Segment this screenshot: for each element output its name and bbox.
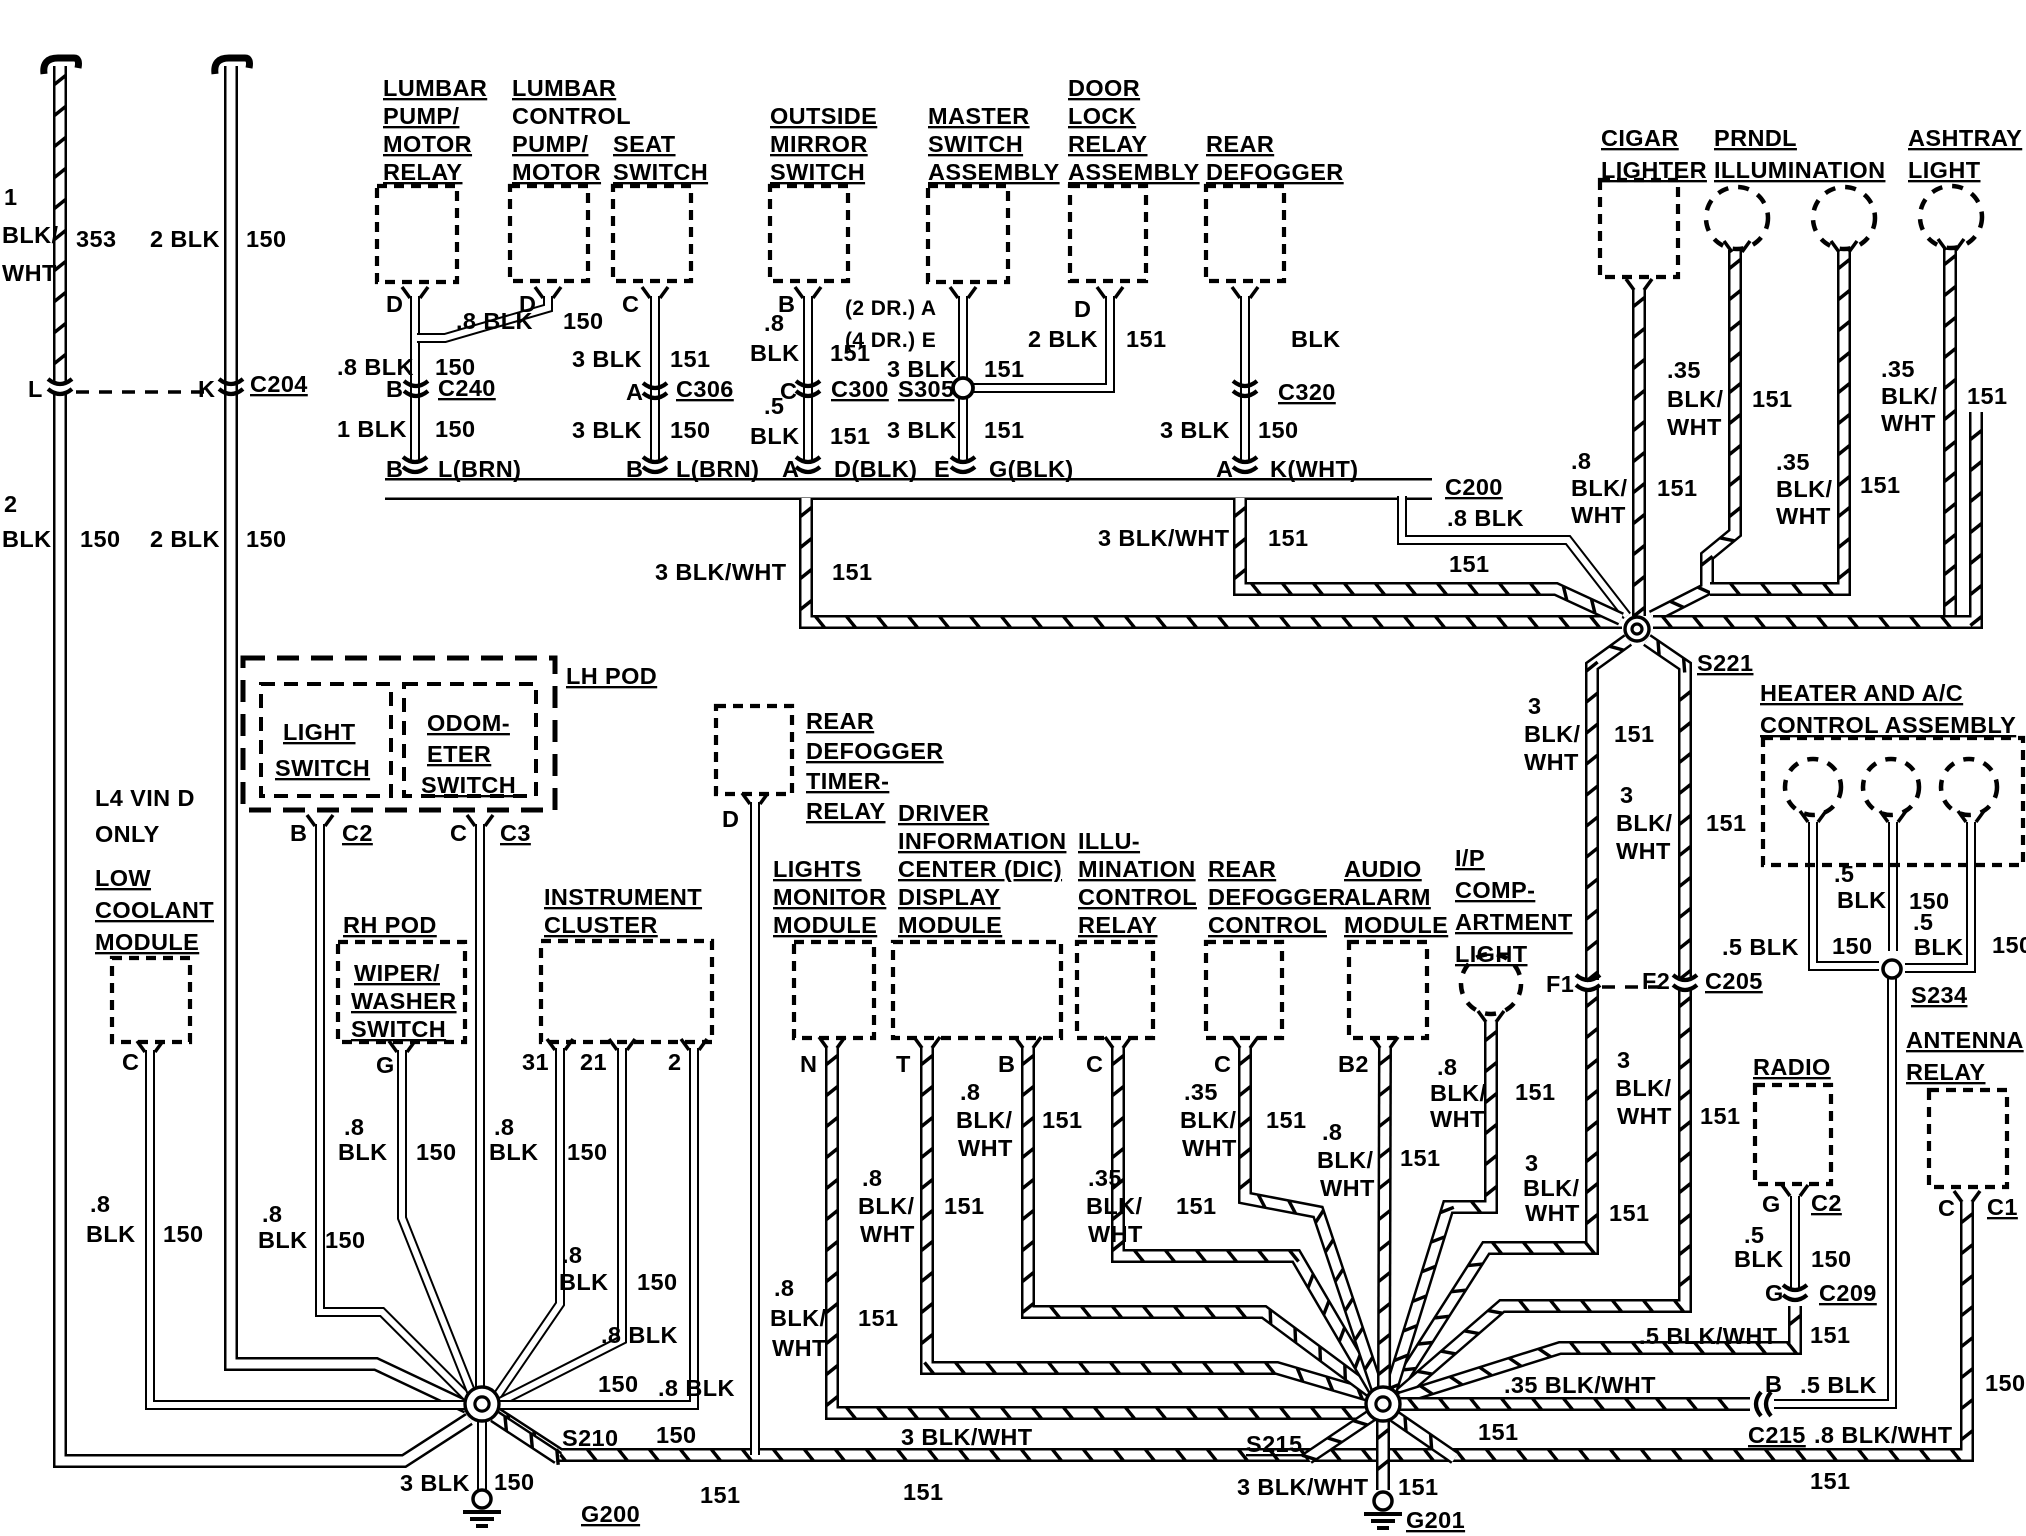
svg-text:MASTER: MASTER (928, 103, 1030, 129)
svg-text:L(BRN): L(BRN) (438, 456, 521, 482)
svg-text:3: 3 (1620, 782, 1633, 808)
pin flare rear defogger (1232, 287, 1258, 298)
svg-text:B: B (386, 456, 403, 482)
svg-text:ETER: ETER (427, 741, 491, 767)
pin flare antenna relay C (1954, 1191, 1980, 1202)
wire S210 down 3 BLK 150 to G200 (477, 1421, 487, 1490)
svg-text:WHT: WHT (1525, 1200, 1580, 1226)
svg-text:MODULE: MODULE (773, 912, 877, 938)
svg-text:.8: .8 (774, 1275, 794, 1301)
wire S221 to F1 3 BLK/WHT 151 vertical (1586, 640, 1628, 981)
wire radio pin G .5 BLK 150 to C209 (1790, 1196, 1800, 1288)
svg-text:LH POD: LH POD (566, 663, 657, 689)
svg-text:B: B (998, 1051, 1015, 1077)
svg-text:.8 BLK: .8 BLK (456, 308, 533, 334)
svg-text:BLK: BLK (258, 1227, 308, 1253)
svg-text:BLK/: BLK/ (1571, 475, 1627, 501)
svg-text:RH POD: RH POD (343, 912, 437, 938)
svg-text:L: L (28, 376, 43, 402)
svg-text:ILLUMINATION: ILLUMINATION (1714, 157, 1885, 183)
svg-text:OUTSIDE: OUTSIDE (770, 103, 877, 129)
svg-text:BLK/: BLK/ (1180, 1107, 1236, 1133)
svg-text:G201: G201 (1406, 1507, 1465, 1533)
svg-text:BLK: BLK (86, 1221, 136, 1247)
svg-text:G: G (1765, 1280, 1784, 1306)
box illumination control relay (1077, 942, 1153, 1038)
wire S215 down 3 BLK/WHT 151 to G201 (1377, 1420, 1388, 1490)
svg-text:BLK: BLK (1734, 1246, 1784, 1272)
wire S215 to C215 .35 BLK/WHT (1399, 1398, 1750, 1409)
svg-text:LIGHTER: LIGHTER (1601, 157, 1707, 183)
wire instrument cluster pin 31 .8 BLK 150 to S210 (497, 1048, 560, 1396)
pin flare cluster 2 (681, 1039, 707, 1050)
svg-text:INFORMATION: INFORMATION (898, 828, 1066, 854)
wire ashtray light .35 BLK/WHT down to S221 right band (1944, 246, 1955, 616)
svg-text:F2: F2 (1642, 968, 1670, 994)
wire LH POD pin C C3 .8 BLK 150 to S210 (475, 824, 485, 1388)
svg-text:MOTOR: MOTOR (512, 159, 601, 185)
svg-text:C200: C200 (1445, 474, 1503, 500)
box door lock relay assembly (1070, 186, 1146, 281)
pin flare audio alarm B2 (1372, 1037, 1398, 1048)
connector C204 pin L (48, 379, 72, 394)
svg-text:DRIVER: DRIVER (898, 800, 989, 826)
svg-text:151: 151 (1609, 1200, 1649, 1226)
svg-text:151: 151 (1266, 1107, 1306, 1133)
svg-text:LIGHT: LIGHT (1455, 941, 1528, 967)
svg-text:I/P: I/P (1455, 845, 1485, 871)
svg-text:SEAT: SEAT (613, 131, 676, 157)
wire lumbar control pump/motor pin D jog .8 BLK 150 (417, 296, 548, 338)
svg-text:B2: B2 (1338, 1051, 1369, 1077)
svg-text:BLK/: BLK/ (1667, 386, 1723, 412)
wire S215 lower-left diagonal to 151 bus (1302, 1415, 1372, 1460)
svg-text:DISPLAY: DISPLAY (898, 884, 1001, 910)
connector C209 pin G (1783, 1285, 1807, 1300)
svg-text:C2: C2 (1811, 1190, 1842, 1216)
wire cigar lighter .8 BLK/WHT 151 down to S221 (1633, 288, 1644, 617)
svg-text:DEFOGGER: DEFOGGER (806, 738, 944, 764)
svg-text:.8: .8 (262, 1201, 282, 1227)
svg-text:BLK: BLK (559, 1269, 609, 1295)
svg-text:G(BLK): G(BLK) (989, 456, 1074, 482)
svg-text:C: C (1214, 1051, 1231, 1077)
off-page hook left wire 2 (215, 58, 250, 74)
svg-text:CIGAR: CIGAR (1601, 125, 1679, 151)
wire heater A/C bulb middle .5 BLK 150 to S234 (1888, 822, 1898, 951)
pin flare RH POD G (389, 1041, 415, 1052)
svg-text:.35: .35 (1776, 449, 1810, 475)
svg-text:BLK: BLK (1837, 887, 1887, 913)
svg-text:2 BLK: 2 BLK (150, 226, 220, 252)
svg-text:PUMP/: PUMP/ (512, 131, 588, 157)
wire dashed link C204 L-K (76, 390, 214, 394)
svg-text:MIRROR: MIRROR (770, 131, 868, 157)
wire PRNDL illumination bulb2 .35 BLK/WHT 151 (1710, 250, 1850, 595)
box instrument cluster (541, 941, 712, 1042)
connector C306 pin A (643, 383, 667, 398)
svg-text:3 BLK: 3 BLK (887, 417, 957, 443)
svg-text:COOLANT: COOLANT (95, 897, 214, 923)
svg-text:BLK/: BLK/ (1430, 1080, 1486, 1106)
svg-text:151: 151 (1176, 1193, 1216, 1219)
svg-text:WHT: WHT (1088, 1221, 1143, 1247)
box outside mirror switch (770, 186, 848, 281)
svg-text:WHT: WHT (1667, 414, 1722, 440)
svg-text:150: 150 (1258, 417, 1298, 443)
pin flare I/P light (1478, 1011, 1504, 1022)
svg-text:TIMER-: TIMER- (806, 768, 889, 794)
box rear defogger timer-relay (716, 706, 792, 794)
svg-text:2 BLK: 2 BLK (1028, 326, 1098, 352)
svg-text:BLK/: BLK/ (2, 222, 58, 248)
svg-text:(4 DR.) E: (4 DR.) E (845, 329, 936, 352)
svg-text:.5: .5 (1744, 1222, 1764, 1248)
svg-text:LIGHT: LIGHT (1908, 157, 1981, 183)
svg-text:C306: C306 (676, 376, 734, 402)
box DIC display module (893, 942, 1061, 1038)
svg-text:F1: F1 (1546, 971, 1574, 997)
svg-text:CONTROL: CONTROL (1208, 912, 1327, 938)
svg-text:151: 151 (1657, 475, 1697, 501)
box heater and A/C control assembly (1763, 738, 2023, 865)
svg-text:150: 150 (598, 1371, 638, 1397)
svg-text:B: B (626, 456, 643, 482)
svg-text:WHT: WHT (1881, 410, 1936, 436)
svg-text:BLK/: BLK/ (1615, 1075, 1671, 1101)
svg-text:.5 BLK: .5 BLK (1800, 1372, 1877, 1398)
svg-text:MONITOR: MONITOR (773, 884, 886, 910)
svg-text:ALARM: ALARM (1344, 884, 1431, 910)
svg-text:ANTENNA: ANTENNA (1906, 1027, 2024, 1053)
svg-text:LUMBAR: LUMBAR (383, 75, 487, 101)
svg-text:150: 150 (670, 417, 710, 443)
svg-text:SWITCH: SWITCH (613, 159, 708, 185)
svg-text:CONTROL: CONTROL (1078, 884, 1197, 910)
svg-text:.8: .8 (1322, 1119, 1342, 1145)
svg-text:3: 3 (1525, 1150, 1538, 1176)
svg-text:151: 151 (1967, 383, 2007, 409)
box lumbar control pump/motor (510, 186, 588, 281)
svg-text:WHT: WHT (1571, 502, 1626, 528)
wire low coolant module pin C .8 BLK 150 to S210 (150, 1050, 466, 1405)
svg-text:MODULE: MODULE (95, 929, 199, 955)
svg-text:C320: C320 (1278, 379, 1336, 405)
svg-text:3 BLK/WHT: 3 BLK/WHT (901, 1424, 1033, 1450)
svg-text:.8: .8 (344, 1114, 364, 1140)
svg-text:150: 150 (1985, 1370, 2025, 1396)
svg-text:L(BRN): L(BRN) (676, 456, 759, 482)
svg-text:150: 150 (494, 1469, 534, 1495)
svg-text:BLK: BLK (750, 340, 800, 366)
svg-text:WHT: WHT (1524, 749, 1579, 775)
svg-text:D: D (1074, 296, 1091, 322)
svg-text:150: 150 (1992, 932, 2026, 958)
svg-text:ASSEMBLY: ASSEMBLY (928, 159, 1060, 185)
box rear defogger (1206, 186, 1284, 281)
svg-text:150: 150 (325, 1227, 365, 1253)
lamp PRNDL illumination bulb 2 (1813, 187, 1875, 249)
svg-text:.5: .5 (764, 393, 784, 419)
svg-text:150: 150 (1811, 1246, 1851, 1272)
svg-text:.8: .8 (494, 1114, 514, 1140)
box antenna relay (1929, 1090, 2007, 1187)
svg-text:WHT: WHT (1320, 1175, 1375, 1201)
svg-text:BLK: BLK (750, 423, 800, 449)
connector C205 pin F1 (1576, 975, 1600, 990)
svg-text:REAR: REAR (1206, 131, 1274, 157)
svg-text:.8: .8 (862, 1165, 882, 1191)
svg-text:LOW: LOW (95, 865, 151, 891)
svg-text:C3: C3 (500, 820, 531, 846)
connector bus pin E G(BLK) (951, 457, 975, 472)
svg-text:MOTOR: MOTOR (383, 131, 472, 157)
pin flare LH POD B (307, 815, 333, 826)
svg-text:151: 151 (984, 356, 1024, 382)
svg-text:WHT: WHT (772, 1335, 827, 1361)
svg-text:.5: .5 (1834, 861, 1854, 887)
box light switch (261, 684, 391, 796)
wire 3 BLK/WHT 151 bus drop to S221 left band (800, 498, 1622, 628)
svg-text:B: B (386, 376, 403, 402)
svg-text:3 BLK: 3 BLK (400, 1470, 470, 1496)
svg-text:151: 151 (858, 1305, 898, 1331)
box master switch assembly (928, 186, 1008, 282)
connector bus pin A K(WHT) (1233, 457, 1257, 472)
wire I/P compartment light .8 BLK/WHT 151 to S215 (1385, 1022, 1497, 1390)
svg-text:150: 150 (435, 416, 475, 442)
splice S215 (1366, 1387, 1400, 1421)
svg-text:WHT: WHT (1617, 1103, 1672, 1129)
pin flare cigar lighter (1626, 279, 1652, 290)
wire S305 down 3 BLK 151 to G(BLK) (958, 396, 968, 462)
lamp I/P compartment light (1461, 954, 1521, 1014)
svg-text:INSTRUMENT: INSTRUMENT (544, 884, 702, 910)
svg-text:BLK: BLK (489, 1139, 539, 1165)
connector C205 pin F2 (1673, 975, 1697, 990)
svg-text:L4 VIN D: L4 VIN D (95, 785, 195, 811)
svg-text:C: C (1938, 1195, 1955, 1221)
svg-text:RELAY: RELAY (1078, 912, 1158, 938)
svg-text:150: 150 (163, 1221, 203, 1247)
svg-text:BLK/: BLK/ (1616, 810, 1672, 836)
svg-text:K: K (198, 376, 215, 402)
svg-text:.8: .8 (1571, 448, 1591, 474)
svg-text:150: 150 (563, 308, 603, 334)
svg-text:31: 31 (522, 1049, 549, 1075)
svg-text:21: 21 (580, 1049, 607, 1075)
wire S221 right band 151 with off-page stub (1653, 412, 1982, 628)
svg-text:A: A (782, 456, 799, 482)
wire lights monitor module pin N .8 BLK/WHT 151 to S215 (826, 1046, 1367, 1419)
svg-text:ASSEMBLY: ASSEMBLY (1068, 159, 1200, 185)
svg-text:BLK/: BLK/ (1524, 721, 1580, 747)
svg-text:2: 2 (4, 491, 17, 517)
pin flare timer relay D (742, 793, 768, 804)
svg-text:C: C (1086, 1051, 1103, 1077)
box low coolant module (112, 958, 190, 1042)
svg-text:151: 151 (1515, 1079, 1555, 1105)
svg-text:BLK: BLK (1291, 326, 1341, 352)
svg-text:151: 151 (944, 1193, 984, 1219)
pin flare PRNDL bulb2 (1831, 241, 1857, 252)
box cigar lighter (1600, 180, 1678, 277)
svg-text:WHT: WHT (2, 260, 57, 286)
wire heater A/C bulb right .5 BLK 150 to S234 (1905, 822, 1971, 968)
svg-text:150: 150 (246, 226, 286, 252)
svg-text:BLK/: BLK/ (1523, 1175, 1579, 1201)
svg-text:C240: C240 (438, 375, 496, 401)
svg-text:WIPER/: WIPER/ (354, 960, 440, 986)
wire F1 to S215 3 BLK/WHT 151 (1394, 988, 1598, 1392)
pin flare mirror switch B (795, 287, 821, 298)
svg-text:A: A (626, 379, 643, 405)
svg-text:C: C (622, 291, 639, 317)
wire rear defogger BLK to C320 to K(WHT) 3 BLK 150 (1240, 296, 1250, 462)
svg-text:MODULE: MODULE (898, 912, 1002, 938)
svg-text:.8 BLK: .8 BLK (658, 1375, 735, 1401)
wire DIC pin T .8 BLK/WHT 151 to S215 (921, 1046, 1372, 1399)
wire DIC pin B .8 BLK/WHT 151 to S215 (1022, 1046, 1373, 1398)
svg-text:BLK: BLK (1914, 934, 1964, 960)
svg-text:LIGHTS: LIGHTS (773, 856, 862, 882)
svg-text:D: D (722, 806, 739, 832)
wire S234 down .5 BLK 150 to C215 pin B (1774, 978, 1892, 1404)
svg-text:C209: C209 (1819, 1280, 1877, 1306)
pin flare illum relay C (1105, 1037, 1131, 1048)
off-page hook left wire 1 (44, 58, 79, 74)
box audio alarm module (1349, 942, 1427, 1038)
svg-text:.5 BLK/WHT: .5 BLK/WHT (1639, 1323, 1778, 1349)
pin flare cluster 31 (547, 1039, 573, 1050)
svg-text:150: 150 (80, 526, 120, 552)
svg-text:150: 150 (416, 1139, 456, 1165)
svg-text:BLK: BLK (2, 526, 52, 552)
svg-text:ILLU-: ILLU- (1078, 828, 1140, 854)
svg-text:.8: .8 (90, 1191, 110, 1217)
svg-text:3 BLK: 3 BLK (1160, 417, 1230, 443)
svg-text:C215: C215 (1748, 1422, 1806, 1448)
svg-text:S215: S215 (1246, 1431, 1302, 1457)
wire outside mirror switch pin B .8 BLK to C300 to D(BLK) (803, 296, 813, 462)
wire dashed link C205 F1-F2 (1602, 985, 1671, 989)
svg-text:.35: .35 (1088, 1165, 1122, 1191)
svg-text:C2: C2 (342, 820, 373, 846)
svg-text:2: 2 (668, 1049, 681, 1075)
wire rear defogger timer-relay pin D .8 BLK down to 151 bus (750, 802, 760, 1455)
svg-text:C: C (450, 820, 467, 846)
pin flare ashtray (1938, 239, 1964, 250)
svg-text:C: C (122, 1049, 139, 1075)
svg-text:151: 151 (832, 559, 872, 585)
svg-text:C300: C300 (831, 376, 889, 402)
pin flare radio G (1782, 1185, 1808, 1196)
svg-text:SWITCH: SWITCH (275, 755, 370, 781)
svg-text:S234: S234 (1911, 982, 1967, 1008)
box odometer switch (404, 684, 536, 796)
svg-text:.35 BLK/WHT: .35 BLK/WHT (1504, 1372, 1656, 1398)
svg-text:LIGHT: LIGHT (283, 719, 356, 745)
svg-text:LUMBAR: LUMBAR (512, 75, 616, 101)
lamp PRNDL illumination bulb 1 (1706, 187, 1768, 249)
svg-text:DEFOGGER: DEFOGGER (1208, 884, 1346, 910)
svg-text:.5: .5 (1913, 909, 1933, 935)
splice S305 (953, 378, 973, 398)
svg-text:RELAY: RELAY (806, 798, 886, 824)
wire audio alarm module pin B2 .8 BLK/WHT 151 to S215 (1379, 1046, 1391, 1388)
wire LH POD pin B C2 .8 BLK 150 to S210 (320, 824, 469, 1399)
svg-text:.35: .35 (1184, 1079, 1218, 1105)
box seat switch (613, 186, 691, 281)
svg-text:BLK: BLK (338, 1139, 388, 1165)
lamp heater A/C bulb 3 (1941, 759, 1997, 815)
wire heater A/C bulb left .5 BLK 150 to S234 (1813, 822, 1879, 966)
svg-text:150: 150 (656, 1422, 696, 1448)
svg-text:T: T (896, 1051, 911, 1077)
svg-text:B: B (290, 820, 307, 846)
svg-text:3: 3 (1617, 1047, 1630, 1073)
svg-text:ONLY: ONLY (95, 821, 160, 847)
wire PRNDL illumination bulb1 .35 BLK/WHT 151 to S221 (1652, 250, 1741, 617)
lamp ashtray light (1920, 186, 1982, 248)
svg-text:ASHTRAY: ASHTRAY (1908, 125, 2022, 151)
svg-text:WHT: WHT (958, 1135, 1013, 1161)
svg-text:.35: .35 (1881, 356, 1915, 382)
svg-text:151: 151 (903, 1479, 943, 1505)
svg-text:G200: G200 (581, 1501, 640, 1527)
svg-text:B: B (1765, 1371, 1782, 1397)
svg-text:WHT: WHT (1182, 1135, 1237, 1161)
connector bus pin A D(BLK) (796, 457, 820, 472)
svg-text:SWITCH: SWITCH (351, 1016, 446, 1042)
svg-text:1: 1 (4, 184, 17, 210)
pin flare defog control C (1232, 1037, 1258, 1048)
svg-text:151: 151 (1449, 551, 1489, 577)
pin flare low coolant C (137, 1041, 163, 1052)
wire master switch assembly pin A/E 3 BLK to S305 (958, 296, 968, 380)
lamp heater A/C bulb 2 (1863, 759, 1919, 815)
connector C204 pin K (219, 379, 243, 394)
svg-text:BLK/: BLK/ (1086, 1193, 1142, 1219)
wire S221 to F2 3 BLK/WHT 151 vertical (1647, 640, 1691, 980)
pin flare seat switch C (642, 287, 668, 298)
svg-text:150: 150 (1832, 933, 1872, 959)
svg-text:HEATER AND A/C: HEATER AND A/C (1760, 680, 1963, 706)
svg-text:151: 151 (1400, 1145, 1440, 1171)
svg-text:3 BLK/WHT: 3 BLK/WHT (1237, 1474, 1369, 1500)
svg-text:SWITCH: SWITCH (421, 772, 516, 798)
connector C320 (1233, 381, 1257, 396)
svg-text:.8: .8 (960, 1079, 980, 1105)
svg-text:WHT: WHT (1776, 503, 1831, 529)
pin flare DIC T (914, 1037, 940, 1048)
svg-text:LOCK: LOCK (1068, 103, 1136, 129)
svg-text:151: 151 (700, 1482, 740, 1508)
wire 3 BLK/WHT 151 bus drop to S221 upper band (1234, 498, 1621, 619)
pin flare door lock D (1097, 287, 1123, 298)
svg-text:C204: C204 (250, 371, 308, 397)
svg-text:WHT: WHT (860, 1221, 915, 1247)
svg-text:G: G (1762, 1191, 1781, 1217)
box lights monitor module (794, 942, 874, 1038)
svg-text:E: E (934, 456, 950, 482)
svg-text:A: A (1216, 456, 1233, 482)
pin flare heater bulb2 (1880, 811, 1906, 822)
svg-text:PRNDL: PRNDL (1714, 125, 1797, 151)
svg-text:WHT: WHT (1430, 1106, 1485, 1132)
connector bus pin B L(BRN) lumbar (403, 457, 427, 472)
pin flare heater bulb3 (1958, 811, 1984, 822)
